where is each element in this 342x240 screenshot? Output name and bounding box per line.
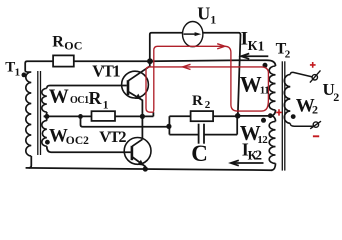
svg-text:2: 2 [255, 148, 262, 163]
svg-text:12: 12 [257, 134, 268, 146]
svg-text:R: R [192, 93, 203, 109]
svg-text:R: R [52, 34, 64, 51]
svg-text:2: 2 [312, 103, 318, 117]
svg-text:1: 1 [15, 66, 21, 78]
svg-text:U: U [197, 4, 210, 24]
svg-text:VT1: VT1 [92, 61, 120, 80]
svg-text:1: 1 [210, 13, 216, 27]
svg-text:C: C [191, 141, 208, 166]
svg-text:ОС2: ОС2 [66, 135, 89, 147]
svg-text:R: R [89, 88, 103, 108]
svg-text:W: W [49, 86, 69, 108]
svg-text:VT2: VT2 [99, 129, 126, 146]
svg-text:11: 11 [260, 85, 269, 97]
svg-text:К: К [248, 38, 258, 53]
svg-text:1: 1 [258, 39, 265, 54]
svg-text:2: 2 [333, 90, 339, 104]
svg-text:ОС1: ОС1 [70, 95, 89, 106]
svg-text:W: W [240, 72, 262, 97]
svg-text:2: 2 [285, 49, 291, 61]
svg-text:1: 1 [103, 100, 109, 112]
svg-text:2: 2 [205, 99, 211, 111]
svg-text:ОС: ОС [64, 38, 82, 52]
